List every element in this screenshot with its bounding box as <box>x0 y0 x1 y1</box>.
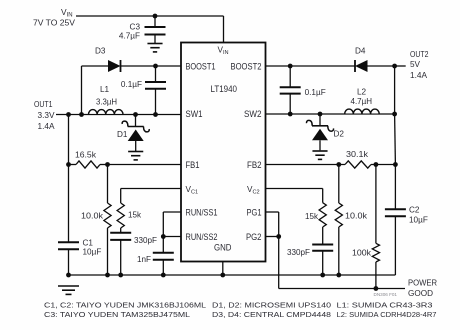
svg-text:RUN/SS2: RUN/SS2 <box>186 232 218 242</box>
svg-text:3.3V: 3.3V <box>38 111 56 120</box>
diode D1 <box>122 112 149 151</box>
note line1 col1 <box>44 303 206 310</box>
svg-text:SW1: SW1 <box>186 109 203 119</box>
wire power good line <box>279 237 405 291</box>
svg-text:D4: D4 <box>355 47 366 56</box>
resistor R2 10.0k <box>104 165 111 276</box>
resistor R2 value 10.0k <box>81 212 104 221</box>
U1 pin label BOOST2 <box>231 62 262 72</box>
diode D3 <box>108 60 121 72</box>
resistor R4 value 30.1k <box>346 150 369 159</box>
svg-text:PG2: PG2 <box>246 232 262 242</box>
ground at D1 <box>128 152 143 160</box>
diode D2 label <box>334 130 345 139</box>
wire SW1 OUT1 net <box>56 114 181 116</box>
svg-text:SW2: SW2 <box>244 109 262 119</box>
svg-text:GND: GND <box>214 243 232 253</box>
svg-text:10.0k: 10.0k <box>345 212 368 221</box>
net VIN input rail wire <box>76 16 224 43</box>
svg-text:L1: SUMIDA CR43-3R3: L1: SUMIDA CR43-3R3 <box>337 303 433 310</box>
resistor R7 100k <box>372 165 379 289</box>
U1 pin label FB2 <box>247 160 262 170</box>
svg-text:RUN/SS1: RUN/SS1 <box>186 208 218 218</box>
resistor R4 30.1k <box>345 161 371 168</box>
svg-text:L2: SUMIDA CDRH4D28-4R7: L2: SUMIDA CDRH4D28-4R7 <box>337 312 437 319</box>
resistor R7 value 100k <box>352 249 372 258</box>
svg-text:5V: 5V <box>410 60 421 69</box>
wire FB1 net <box>108 164 182 166</box>
wire U1 GND pin to rail <box>222 261 224 275</box>
svg-text:D1, D2: MICROSEMI UPS140: D1, D2: MICROSEMI UPS140 <box>212 303 331 310</box>
diode D3 label <box>95 47 106 56</box>
svg-text:FB1: FB1 <box>186 160 200 170</box>
figure number DN306 F01 <box>374 292 398 297</box>
svg-text:30.1k: 30.1k <box>346 150 369 159</box>
wire BOOST1 net <box>82 64 182 69</box>
svg-text:15k: 15k <box>305 212 319 221</box>
svg-text:OUT2: OUT2 <box>410 50 429 59</box>
svg-text:BOOST1: BOOST1 <box>186 62 216 72</box>
resistor R1 value 16.5k <box>75 151 97 160</box>
svg-text:C3: TAIYO YUDEN TAM325BJ475ML: C3: TAIYO YUDEN TAM325BJ475ML <box>44 312 190 319</box>
capacitor C3 value label <box>119 23 141 41</box>
junction dots on ground rail <box>66 273 341 278</box>
svg-text:OUT1: OUT1 <box>34 100 53 109</box>
diode D4 <box>355 60 368 72</box>
svg-text:L1: L1 <box>100 85 110 94</box>
U1 pin label VC1 <box>186 185 199 196</box>
U1 pin label VIN <box>218 46 229 57</box>
capacitor C5 boost1 0.1uF <box>145 66 166 117</box>
svg-text:4.7µH: 4.7µH <box>351 97 373 106</box>
svg-text:PG1: PG1 <box>247 208 262 218</box>
capacitor C2 value labels <box>409 206 428 225</box>
svg-text:POWER: POWER <box>408 279 437 288</box>
wire RUN/SS1 net <box>163 212 181 253</box>
resistor R5 10.0k right <box>335 165 342 276</box>
svg-text:D3: D3 <box>95 47 106 56</box>
wire SW2 net <box>266 112 398 117</box>
wire OUT2 vertical <box>394 66 397 165</box>
note line2 col2 <box>212 312 331 319</box>
svg-text:4.7µF: 4.7µF <box>119 32 140 41</box>
resistor R1 16.5k <box>69 161 110 168</box>
capacitor C9 value 330pF <box>287 248 310 257</box>
svg-text:FB2: FB2 <box>247 160 262 170</box>
wire PG1 net <box>266 212 279 237</box>
svg-text:C1, C2: TAIYO YUDEN JMK316BJ10: C1, C2: TAIYO YUDEN JMK316BJ106ML <box>44 303 206 310</box>
svg-text:C1: C1 <box>83 239 94 248</box>
U1 pin label SW1 <box>186 109 203 119</box>
capacitor C1 10uF <box>58 165 79 276</box>
resistor R3 15k <box>117 203 124 228</box>
capacitor C9 330pF right <box>312 227 333 275</box>
svg-text:1.4A: 1.4A <box>410 71 428 80</box>
svg-text:10µF: 10µF <box>83 248 102 257</box>
inductor L2 labels <box>351 88 373 107</box>
svg-text:D1: D1 <box>117 130 128 139</box>
ground at C3 <box>147 44 162 52</box>
svg-text:7V TO 25V: 7V TO 25V <box>33 19 76 28</box>
capacitor C2 10uF <box>385 165 406 276</box>
capacitor C7 value 1nF <box>137 255 151 264</box>
diode D1 label <box>117 130 128 139</box>
wire D3 anode to OUT1 line <box>79 66 84 117</box>
resistor R3 value 15k <box>128 211 142 220</box>
node VIN label <box>33 7 76 28</box>
wire BOOST2 net <box>266 64 395 69</box>
svg-text:DN306 F01: DN306 F01 <box>374 292 398 297</box>
svg-text:16.5k: 16.5k <box>75 151 97 160</box>
ground at D2 <box>312 151 327 159</box>
U1 pin label FB1 <box>186 160 200 170</box>
svg-text:L2: L2 <box>357 88 367 97</box>
wire ground rail <box>69 274 396 276</box>
U1 pin label RUN/SS1 <box>186 208 218 218</box>
node OUT2 wire and labels <box>392 50 429 80</box>
capacitor boost2 value 0.1uF <box>305 88 326 97</box>
svg-text:3.3µH: 3.3µH <box>96 98 117 107</box>
svg-text:1.4A: 1.4A <box>38 122 56 131</box>
svg-text:15k: 15k <box>128 211 142 220</box>
note line1 col3 <box>337 303 433 310</box>
inductor L2 <box>344 106 380 114</box>
node OUT1 labels <box>34 100 55 131</box>
wire FB2 net <box>266 162 398 167</box>
node POWER GOOD label <box>408 279 437 299</box>
ground symbol main <box>58 286 79 294</box>
svg-text:C3: C3 <box>130 23 141 32</box>
junction OUT1 node <box>66 112 71 117</box>
svg-text:0.1µF: 0.1µF <box>305 88 326 97</box>
wire VC2 net <box>266 189 323 203</box>
note line1 col2 <box>212 303 331 310</box>
svg-text:LT1940: LT1940 <box>211 84 238 94</box>
U1 pin label PG2 <box>246 232 262 242</box>
inductor L1 <box>88 107 124 115</box>
svg-text:100k: 100k <box>352 249 372 258</box>
wire VC1 net <box>121 189 181 204</box>
svg-text:D2: D2 <box>334 130 345 139</box>
capacitor boost1 value 0.1uF <box>121 80 142 89</box>
svg-text:330pF: 330pF <box>134 236 157 245</box>
U1 part number LT1940 <box>211 84 238 94</box>
capacitor C3 <box>145 14 166 43</box>
op-amp U1 LT1940 box <box>181 43 266 262</box>
svg-text:10µF: 10µF <box>409 216 428 225</box>
svg-text:C2: C2 <box>409 206 420 215</box>
U1 pin label GND <box>214 243 232 253</box>
svg-text:0.1µF: 0.1µF <box>121 80 142 89</box>
svg-text:1nF: 1nF <box>137 255 151 264</box>
resistor R5 value 10.0k <box>345 212 368 221</box>
note line2 col1 <box>44 312 190 319</box>
capacitor C1 value labels <box>83 239 102 257</box>
U1 pin label VC2 <box>247 185 260 196</box>
wire OUT1 to divider <box>66 115 71 167</box>
resistor R6 15k right <box>319 203 326 227</box>
capacitor C8 boost2 0.1uF <box>280 66 301 116</box>
svg-text:D3, D4: CENTRAL CMPD4448: D3, D4: CENTRAL CMPD4448 <box>212 312 331 319</box>
diode D4 label <box>355 47 366 56</box>
diode D2 <box>306 112 333 151</box>
svg-text:330pF: 330pF <box>287 248 310 257</box>
U1 pin label SW2 <box>244 109 262 119</box>
note line2 col3 <box>337 312 437 319</box>
svg-text:BOOST2: BOOST2 <box>231 62 262 72</box>
svg-text:10.0k: 10.0k <box>81 212 104 221</box>
U1 pin label PG1 <box>247 208 262 218</box>
svg-text:GOOD: GOOD <box>408 289 433 298</box>
U1 pin label RUN/SS2 <box>186 232 218 242</box>
U1 pin label BOOST1 <box>186 62 216 72</box>
wire PG2 net <box>266 234 282 239</box>
capacitor C7 1nF <box>153 253 174 275</box>
capacitor C6 value 330pF <box>134 236 157 245</box>
resistor R6 value 15k <box>305 212 319 221</box>
wire RUN/SS2 net <box>161 234 181 239</box>
capacitor C6 330pF <box>110 228 131 275</box>
inductor L1 labels <box>96 85 117 107</box>
